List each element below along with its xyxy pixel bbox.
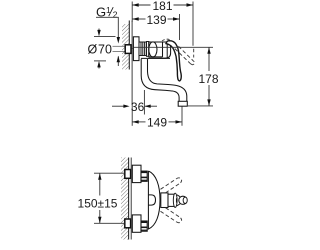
lever ghost upper (dashed): [161, 178, 182, 193]
arrows: [97, 3, 210, 123]
body underside line: [141, 57, 170, 59]
ext aerator center: [181, 106, 183, 125]
dim 149: [132, 121, 145, 123]
svg-text:139: 139: [146, 13, 166, 27]
lever ghost arc above cap (dashed): [162, 39, 173, 41]
wall hatching (top view): [122, 24, 129, 70]
O70 ext top: [94, 35, 116, 37]
ext 178 bottom: [188, 105, 213, 107]
ext line 181 right: [192, 2, 194, 46]
cylinder end ellipse: [173, 193, 177, 207]
collar ring: [147, 42, 149, 57]
threaded connector: [139, 42, 146, 56]
union escutcheons (bottom view): [132, 165, 141, 182]
svg-text:178: 178: [198, 72, 218, 86]
cartridge cylinder 1: [161, 193, 168, 208]
dim 139 line: [132, 18, 145, 20]
svg-text:36: 36: [131, 100, 145, 114]
O70 arrow tails: [98, 29, 100, 33]
G1/2 leader arrow: [117, 37, 120, 44]
cap / cartridge dome: [148, 42, 171, 58]
svg-text:2: 2: [113, 10, 118, 20]
dim 36 tails: [112, 105, 124, 107]
union nuts (bottom view): [141, 171, 147, 231]
wall lines (top view): [129, 21, 132, 105]
wall hatching (bottom view): [121, 158, 129, 240]
escutcheon (top view): [133, 37, 139, 61]
149 arrows: [132, 120, 139, 123]
svg-text:149: 149: [147, 116, 167, 130]
ext line spout left edge: [143, 90, 145, 115]
181 arrows: [132, 3, 139, 6]
knob cone: [177, 195, 180, 206]
dim 178 vertical: [208, 47, 210, 71]
178 arrows: [207, 47, 210, 54]
cartridge cylinder 2: [168, 194, 175, 206]
G1/2 pipe stub lines: [113, 46, 134, 51]
ext line left (wall top): [131, 2, 133, 23]
ext 178 top: [134, 46, 213, 48]
faucet body (top view): [149, 42, 163, 57]
O70 ext bottom: [94, 60, 106, 62]
concealed G1/2 fitting behind wall: [125, 45, 131, 54]
faucet body (bottom view, half-ellipse): [148, 171, 160, 229]
36 arrows (outside): [123, 105, 129, 108]
O70 arrows: [97, 30, 100, 37]
lever ghost lower (dashed): [161, 208, 182, 223]
ext line 139 right: [179, 14, 181, 40]
spout (S-curve): [141, 59, 187, 101]
svg-text:150±15: 150±15: [78, 197, 118, 211]
svg-text:G: G: [96, 5, 106, 20]
svg-text:Ø: Ø: [88, 42, 98, 56]
spout hole notch: [148, 195, 155, 205]
svg-text:70: 70: [98, 43, 112, 57]
lever ghost (dashed, 45 deg position): [175, 46, 195, 65]
139 arrows: [132, 17, 139, 20]
dim 150+-15: [94, 173, 125, 223]
ext wall bottom: [131, 104, 133, 126]
G 1/2 leader: [96, 17, 118, 37]
svg-text:181: 181: [152, 0, 172, 13]
concealed fittings behind wall: [125, 170, 131, 179]
wall lines (bottom view): [129, 158, 132, 240]
aerator: [178, 101, 187, 106]
knob ball: [179, 196, 187, 204]
dim 181 line: [132, 4, 150, 6]
lever handle (solid, pointing down): [166, 41, 181, 81]
